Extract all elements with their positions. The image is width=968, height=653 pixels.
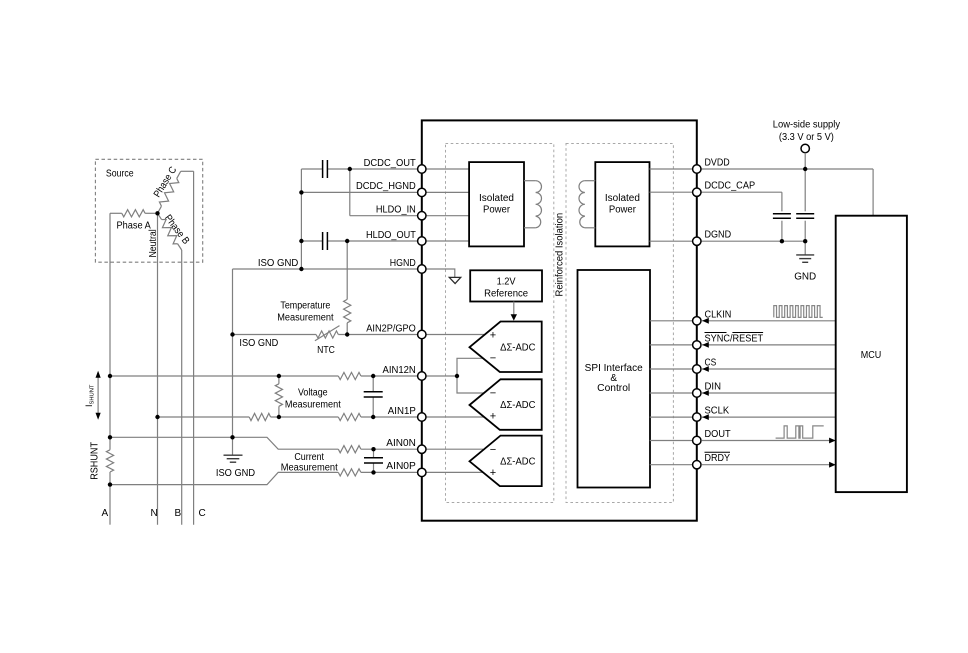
svg-text:AIN0N: AIN0N	[386, 438, 416, 449]
svg-text:Measurement: Measurement	[285, 400, 341, 411]
svg-text:GND: GND	[794, 271, 816, 282]
svg-text:1.2V: 1.2V	[497, 277, 516, 288]
svg-text:Current: Current	[294, 452, 324, 463]
svg-text:+: +	[490, 330, 496, 342]
svg-text:Low-side supply: Low-side supply	[773, 120, 840, 131]
svg-text:CLKIN: CLKIN	[705, 309, 732, 320]
svg-text:RSHUNT: RSHUNT	[90, 442, 101, 480]
svg-text:Temperature: Temperature	[280, 300, 330, 311]
svg-text:AIN1P: AIN1P	[388, 406, 416, 417]
svg-text:B: B	[175, 508, 182, 519]
svg-text:Isolated: Isolated	[605, 193, 640, 204]
svg-text:N: N	[151, 508, 158, 519]
svg-text:Isolated: Isolated	[479, 193, 514, 204]
svg-text:ΔΣ-ADC: ΔΣ-ADC	[500, 457, 535, 468]
svg-text:DGND: DGND	[705, 230, 732, 241]
svg-text:HGND: HGND	[390, 258, 416, 269]
svg-text:AIN0P: AIN0P	[386, 461, 416, 472]
svg-text:AIN12N: AIN12N	[383, 365, 416, 376]
svg-text:Reference: Reference	[484, 288, 528, 299]
svg-text:DCDC_OUT: DCDC_OUT	[364, 158, 416, 169]
svg-text:Voltage: Voltage	[298, 388, 328, 399]
svg-text:ISO GND: ISO GND	[258, 258, 298, 269]
svg-text:MCU: MCU	[861, 350, 882, 361]
svg-text:Power: Power	[483, 204, 511, 215]
svg-text:ISO GND: ISO GND	[239, 338, 278, 349]
svg-text:Measurement: Measurement	[277, 313, 334, 324]
svg-text:SCLK: SCLK	[705, 406, 730, 417]
svg-text:DCDC_HGND: DCDC_HGND	[356, 181, 416, 192]
svg-text:+: +	[490, 467, 496, 479]
svg-text:+: +	[490, 411, 496, 423]
svg-text:Measurement: Measurement	[281, 462, 338, 473]
svg-text:AIN2P/GPO: AIN2P/GPO	[366, 323, 416, 334]
svg-text:Reinforced Isolation: Reinforced Isolation	[554, 213, 565, 297]
svg-text:−: −	[490, 353, 496, 365]
svg-text:−: −	[490, 388, 496, 400]
svg-text:ΔΣ-ADC: ΔΣ-ADC	[500, 342, 535, 353]
svg-text:(3.3 V or 5 V): (3.3 V or 5 V)	[779, 132, 834, 143]
svg-text:NTC: NTC	[317, 345, 335, 356]
svg-text:HLDO_OUT: HLDO_OUT	[366, 230, 416, 241]
svg-text:A: A	[102, 508, 109, 519]
svg-text:DCDC_CAP: DCDC_CAP	[705, 181, 756, 192]
svg-text:ISO GND: ISO GND	[216, 468, 255, 479]
svg-text:Source: Source	[106, 169, 134, 180]
svg-text:DRDY: DRDY	[705, 453, 731, 464]
svg-text:DIN: DIN	[705, 382, 722, 393]
svg-text:Phase A: Phase A	[117, 221, 152, 232]
svg-text:SYNC/RESET: SYNC/RESET	[705, 333, 764, 344]
svg-text:C: C	[199, 508, 206, 519]
svg-text:ΔΣ-ADC: ΔΣ-ADC	[500, 400, 535, 411]
svg-text:Control: Control	[597, 383, 630, 394]
svg-text:CS: CS	[705, 358, 717, 369]
svg-text:DOUT: DOUT	[705, 429, 731, 440]
svg-text:Power: Power	[609, 204, 637, 215]
svg-text:HLDO_IN: HLDO_IN	[376, 205, 416, 216]
svg-text:−: −	[490, 444, 496, 456]
svg-text:DVDD: DVDD	[705, 158, 730, 169]
